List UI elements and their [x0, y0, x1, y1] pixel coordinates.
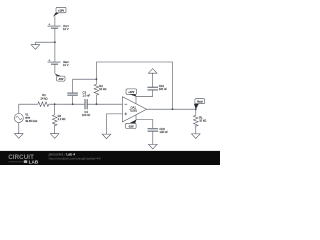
net flag +10V (op-amp V+) [126, 89, 137, 97]
ground (under + input) [102, 134, 111, 139]
junction feedback/output [172, 108, 174, 110]
capacitor CD1 [147, 84, 167, 91]
CircuitLab logo [8, 154, 39, 164]
output wire [147, 108, 196, 110]
wire (V- to CD2) [136, 120, 153, 129]
ground (under CD2) [149, 144, 158, 149]
wire (V+ to CD1) [136, 90, 153, 96]
net flag -10V (bottom supply) [55, 74, 66, 82]
wire [87, 103, 122, 105]
svg-text:49.65 kHz: 49.65 kHz [25, 119, 38, 123]
wire (C3 to R3 top) [73, 78, 97, 80]
svg-text:1.0 nF: 1.0 nF [83, 94, 91, 98]
svg-text:24 kΩ: 24 kΩ [40, 96, 47, 100]
resistor R3 [94, 79, 106, 104]
junction R3/C3 [96, 78, 98, 80]
wire [19, 103, 38, 105]
ground (under RL) [192, 134, 201, 139]
capacitor C3 (feedback) [67, 79, 90, 104]
junction node A [54, 103, 56, 105]
resistor R4 [52, 104, 65, 126]
wire [54, 16, 56, 26]
wire [54, 28, 56, 62]
ground (under R4) [50, 134, 59, 139]
wire [152, 131, 154, 144]
junction C3 tap [72, 103, 74, 105]
svg-text:100 nF: 100 nF [160, 130, 169, 134]
op-amp OA1 TL081 [122, 96, 146, 122]
battery V3 Vee [48, 59, 70, 67]
net flag Vout [194, 99, 205, 110]
junction [54, 41, 56, 43]
ground (flipped, above CD1) [148, 69, 157, 74]
svg-text:-10V: -10V [58, 77, 64, 81]
wire [54, 125, 56, 134]
svg-text:100 nF: 100 nF [82, 113, 91, 117]
wire (+ input to ground) [107, 114, 123, 134]
svg-text:10 kΩ: 10 kΩ [199, 119, 206, 123]
wire [18, 123, 20, 134]
svg-text:+10V: +10V [128, 90, 134, 94]
wire [152, 73, 154, 87]
feedback wire [96, 62, 172, 109]
net flag +10V (top supply) [53, 7, 66, 16]
svg-text:100 nF: 100 nF [159, 87, 168, 91]
svg-text:LAB: LAB [29, 159, 39, 164]
voltage source V1 [14, 104, 38, 123]
svg-text:+10V: +10V [58, 8, 64, 12]
wire [49, 103, 85, 105]
svg-text:10 V: 10 V [63, 27, 69, 31]
svg-text:91 kΩ: 91 kΩ [99, 87, 106, 91]
svg-text:10 V: 10 V [63, 63, 69, 67]
capacitor C4 (series) [82, 99, 91, 117]
footer bar [0, 151, 220, 165]
wire [35, 41, 55, 43]
wire [195, 125, 197, 134]
net flag -10V (op-amp V-) [126, 120, 137, 129]
svg-text:TL081: TL081 [129, 109, 137, 113]
junction R3 bottom [96, 103, 98, 105]
resistor RL [194, 109, 207, 126]
capacitor CD2 [148, 127, 169, 134]
svg-text:Vout: Vout [197, 100, 203, 104]
resistor R2 [38, 93, 49, 106]
ground (left supply) [31, 42, 40, 49]
wire [54, 64, 56, 74]
svg-text:-10V: -10V [128, 124, 134, 128]
svg-text:http://circuitlab.com/c/asg61e: http://circuitlab.com/c/asg61ep/lab-44/ [49, 157, 101, 161]
junction output node [195, 108, 197, 110]
ground (under V1) [15, 134, 24, 139]
svg-text:2.2 kΩ: 2.2 kΩ [58, 117, 66, 121]
battery V2 Vcc [48, 23, 70, 31]
